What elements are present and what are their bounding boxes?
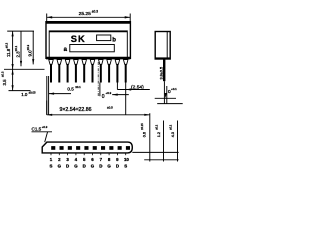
svg-text:+0.3: +0.3 <box>42 125 48 129</box>
dimension (2.54) pin pitch <box>117 84 149 90</box>
bottom view bottom edge extension <box>132 151 178 153</box>
svg-text:b: b <box>112 37 116 43</box>
svg-text:±0.3: ±0.3 <box>92 9 98 13</box>
svg-text:±0.5: ±0.5 <box>107 105 113 109</box>
svg-text:0.6: 0.6 <box>143 132 147 137</box>
dim line 11.8 / 3.5 <box>12 31 14 91</box>
svg-text:±0.1: ±0.1 <box>75 85 81 89</box>
svg-text:+0.3: +0.3 <box>106 91 112 95</box>
rotated text 2.3 <box>14 45 21 57</box>
pin9 extension line <box>116 83 118 90</box>
pin7 extension line <box>99 83 101 97</box>
seating plane line <box>155 97 176 99</box>
svg-text:D: D <box>83 163 86 168</box>
bottom view pin pads <box>51 146 130 150</box>
svg-text:±0.2: ±0.2 <box>169 124 173 130</box>
side view pin <box>163 60 165 82</box>
logo SK marking <box>71 34 86 44</box>
svg-text:G: G <box>91 163 95 168</box>
lower reference line <box>157 103 183 105</box>
svg-text:0.5: 0.5 <box>67 87 74 92</box>
rotated text 4.0 <box>169 124 175 137</box>
svg-text:±0.3: ±0.3 <box>0 71 4 77</box>
svg-text:11.8: 11.8 <box>6 48 11 57</box>
svg-text:+0.1: +0.1 <box>171 87 177 91</box>
svg-text:0: 0 <box>102 94 105 100</box>
dimension 9x2.54=22.86 <box>47 101 150 116</box>
svg-text:G: G <box>58 163 62 168</box>
svg-text:(2.54): (2.54) <box>131 84 144 90</box>
side seating arrow <box>165 93 167 98</box>
rotated text 11.8 <box>5 42 12 57</box>
vertical extension 2 <box>163 121 165 162</box>
pin names <box>50 163 128 168</box>
front view inner face rectangle <box>49 31 127 58</box>
svg-text:G: G <box>107 163 111 168</box>
svg-text:±0.05: ±0.05 <box>29 90 36 94</box>
svg-text:D: D <box>66 163 69 168</box>
left extension line mid <box>4 68 45 70</box>
svg-text:25.25: 25.25 <box>79 11 92 17</box>
centerline dash-dot <box>97 62 99 96</box>
front view body outer rectangle <box>46 22 130 59</box>
svg-text:1.2: 1.2 <box>157 132 161 137</box>
svg-text:±0.1: ±0.1 <box>14 45 18 51</box>
bottom view outline <box>42 142 132 153</box>
dimension 25.25 extension lines <box>47 14 131 22</box>
svg-text:3.8±0.5: 3.8±0.5 <box>159 67 163 80</box>
svg-text:±0.15: ±0.15 <box>140 123 144 130</box>
dimension text 25.25 <box>79 9 99 17</box>
side view body <box>155 32 170 60</box>
svg-text:S: S <box>124 163 127 168</box>
text 1.0 <box>21 90 36 97</box>
svg-text:G: G <box>74 163 78 168</box>
dim line 9.0 <box>32 31 34 64</box>
left extension line at step <box>7 30 34 32</box>
svg-text:1.0: 1.0 <box>21 92 28 97</box>
svg-text:SK: SK <box>71 34 86 44</box>
pin numbers <box>50 157 130 162</box>
svg-text:C1.5: C1.5 <box>32 127 42 132</box>
rotated text 9.0 <box>26 44 33 56</box>
marking window a <box>64 45 115 53</box>
pin10 extension line <box>125 83 127 115</box>
side pin extension lines <box>163 81 165 103</box>
dimension 0.5 lead width <box>49 85 82 95</box>
svg-text:10: 10 <box>124 157 129 162</box>
pins 1-10 front view <box>49 60 128 83</box>
svg-text:3.5: 3.5 <box>2 79 7 86</box>
rotated text 0.6 <box>140 123 146 138</box>
svg-text:D: D <box>99 163 102 168</box>
rotated text 1.2 <box>155 124 161 137</box>
dim line 2.3 <box>20 31 22 66</box>
svg-text:D: D <box>116 163 119 168</box>
svg-text:9×2.54=22.86: 9×2.54=22.86 <box>60 107 92 113</box>
svg-text:±0.3: ±0.3 <box>26 44 30 50</box>
svg-text:S: S <box>50 163 53 168</box>
side text 0 +0.1 <box>168 87 177 95</box>
svg-text:±0.2: ±0.2 <box>155 124 159 130</box>
lower extension line <box>144 159 178 161</box>
vertical extension 3 <box>177 121 179 162</box>
marking window b <box>97 35 117 43</box>
chamfer callout C1.5 <box>32 125 53 142</box>
rotated text 3.5 <box>0 71 7 85</box>
vertical extension 1 <box>149 113 151 161</box>
pin1 extension lines <box>46 76 48 115</box>
svg-text:4.0: 4.0 <box>171 132 175 137</box>
svg-text:±0.3: ±0.3 <box>5 42 9 48</box>
left extension line low <box>9 90 31 92</box>
dimension 0 lead offset <box>102 91 129 100</box>
bottom view pin ticks <box>51 153 126 155</box>
